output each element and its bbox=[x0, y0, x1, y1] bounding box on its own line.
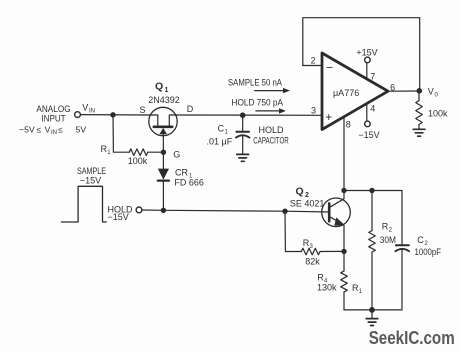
transistor Q1 gate stem bbox=[162, 134, 164, 153]
wire R2 top lead bbox=[371, 191, 373, 231]
node gate G bbox=[161, 150, 166, 155]
transistor Q2 SE4021 body bbox=[322, 198, 351, 227]
diode CR1 body bbox=[158, 169, 169, 180]
ground stem bbox=[371, 310, 373, 318]
capacitor C2 plates bbox=[396, 244, 409, 246]
input terminal VIN bbox=[75, 112, 81, 118]
diode CR1 cathode bar bbox=[158, 180, 169, 182]
current arrow hold bbox=[256, 108, 286, 113]
svg-text:SAMPLE: SAMPLE bbox=[77, 166, 106, 176]
svg-text:1: 1 bbox=[165, 87, 169, 94]
resistor R1 100k bbox=[129, 149, 148, 156]
svg-text:3: 3 bbox=[310, 244, 314, 250]
+15V terminal bbox=[365, 57, 371, 63]
svg-text:C: C bbox=[417, 235, 424, 245]
svg-text:Q: Q bbox=[155, 81, 163, 93]
sample pulse waveform bbox=[62, 186, 107, 222]
wire base node down to R3 bbox=[285, 211, 301, 251]
svg-text:2: 2 bbox=[389, 228, 393, 234]
node base junction bbox=[282, 209, 287, 214]
svg-text:30M: 30M bbox=[380, 235, 396, 245]
resistor R2 30M bbox=[369, 231, 376, 252]
svg-text:HOLD: HOLD bbox=[258, 125, 284, 135]
svg-text:−15V: −15V bbox=[108, 212, 129, 222]
svg-text:S: S bbox=[140, 105, 146, 115]
capacitor C2 bottom lead bbox=[401, 250, 403, 310]
svg-text:INPUT: INPUT bbox=[41, 114, 66, 124]
-15V terminal bbox=[365, 121, 371, 127]
svg-text:V: V bbox=[428, 86, 434, 96]
node emitter junction bbox=[341, 249, 346, 254]
svg-text:.01 μF: .01 μF bbox=[207, 136, 233, 146]
wire R2 bottom lead bbox=[371, 252, 373, 310]
svg-text:−15V: −15V bbox=[358, 130, 379, 140]
svg-text:1: 1 bbox=[107, 150, 111, 156]
wire emitter down bbox=[343, 225, 345, 251]
svg-text:SeekIC.com: SeekIC.com bbox=[369, 328, 455, 348]
wire R3 to emitter node bbox=[320, 250, 344, 252]
svg-text:82k: 82k bbox=[305, 256, 320, 266]
current arrow sample bbox=[255, 88, 290, 93]
resistor R3 82k bbox=[301, 248, 320, 255]
node hold-capacitor junction bbox=[240, 112, 246, 118]
svg-text:V: V bbox=[82, 103, 88, 113]
op-amp pin 6 output wire bbox=[388, 90, 420, 92]
wire emitter node to R4 bbox=[343, 251, 345, 271]
transistor Q1 drain lead bbox=[169, 115, 177, 126]
svg-text:Q: Q bbox=[296, 185, 304, 197]
svg-text:+: + bbox=[325, 110, 332, 124]
svg-text:IN: IN bbox=[51, 130, 57, 136]
wire diode to hold rail bbox=[162, 181, 164, 211]
transistor Q2 base wire bbox=[285, 210, 329, 213]
svg-text:100k: 100k bbox=[128, 156, 148, 166]
svg-text:V: V bbox=[45, 124, 51, 134]
svg-text:2: 2 bbox=[311, 56, 316, 66]
resistor RL 100k bbox=[416, 101, 423, 125]
wire R4 to bottom rail bbox=[343, 292, 345, 310]
svg-text:+15V: +15V bbox=[356, 47, 377, 57]
capacitor C1 plates bbox=[236, 131, 249, 133]
resistor R4 130k bbox=[341, 271, 348, 292]
svg-text:1000pF: 1000pF bbox=[415, 247, 442, 257]
svg-text:1: 1 bbox=[359, 289, 363, 295]
svg-text:−15V: −15V bbox=[80, 176, 101, 186]
ground bottom bbox=[366, 319, 378, 326]
svg-text:3: 3 bbox=[311, 105, 316, 115]
transistor Q1 gate arrow bbox=[159, 128, 167, 134]
capacitor C1 lower lead bbox=[242, 137, 244, 154]
wire input to JFET source bbox=[81, 114, 149, 116]
svg-text:4: 4 bbox=[370, 104, 375, 114]
bottom rail wire bbox=[344, 309, 402, 311]
svg-text:HOLD 750 pA: HOLD 750 pA bbox=[232, 98, 284, 108]
svg-text:FD 666: FD 666 bbox=[174, 178, 204, 188]
diode CR1 FD666 anode wire bbox=[162, 152, 164, 168]
svg-text:130k: 130k bbox=[317, 283, 337, 293]
op-amp pin 2 wire bbox=[303, 65, 322, 67]
svg-text:D: D bbox=[187, 104, 194, 114]
ground C1 bbox=[237, 154, 249, 161]
wire hold terminal to gate line bbox=[142, 209, 163, 211]
op-amp pin 7 stem bbox=[366, 63, 368, 79]
svg-text:−5V: −5V bbox=[19, 124, 35, 134]
svg-text:0: 0 bbox=[435, 92, 439, 98]
transistor Q2 base bar bbox=[328, 203, 331, 221]
transistor Q1 2N4392 body bbox=[149, 107, 177, 135]
transistor Q2 collector bbox=[330, 191, 344, 208]
svg-text:SAMPLE 50 nA: SAMPLE 50 nA bbox=[228, 78, 282, 88]
op-amp pin 4 stem bbox=[366, 104, 368, 121]
wire R1 to gate node bbox=[148, 151, 164, 153]
svg-text:8: 8 bbox=[346, 120, 351, 130]
node ground junction bbox=[369, 307, 375, 313]
hold terminal bbox=[136, 207, 142, 213]
svg-text:1: 1 bbox=[225, 130, 229, 136]
svg-text:CR: CR bbox=[175, 167, 188, 177]
svg-text:100k: 100k bbox=[428, 108, 448, 118]
svg-text:6: 6 bbox=[390, 83, 395, 93]
wire input node down to R1 bbox=[113, 115, 129, 152]
transistor Q2 emitter bbox=[330, 217, 343, 224]
svg-text:IN: IN bbox=[89, 109, 95, 115]
wire load resistor to ground bbox=[418, 125, 420, 129]
svg-text:μA776: μA776 bbox=[333, 88, 359, 98]
svg-text:≤: ≤ bbox=[37, 125, 42, 134]
hold capacitor C1 lead bbox=[242, 115, 244, 130]
node input/R1 junction bbox=[110, 112, 115, 117]
wire top rail to R2 and C2 bbox=[344, 190, 402, 192]
feedback wire output to pin 2 bbox=[303, 18, 420, 90]
op-amp U1 uA776 triangle bbox=[322, 53, 388, 130]
svg-text:5V: 5V bbox=[76, 124, 87, 134]
wire output node to load resistor bbox=[418, 94, 420, 101]
svg-text:CAPACITOR: CAPACITOR bbox=[253, 136, 289, 146]
transistor Q1 source lead bbox=[149, 115, 158, 126]
svg-text:−: − bbox=[326, 61, 333, 75]
wire drain to op-amp pin 3 bbox=[177, 114, 322, 116]
transistor Q1 channel bar bbox=[154, 126, 172, 129]
op-amp pin 8 wire bbox=[343, 117, 345, 190]
node output junction bbox=[417, 88, 423, 94]
svg-text:SE 4021: SE 4021 bbox=[290, 198, 325, 208]
node collector/pin8/rail bbox=[341, 188, 346, 193]
ground output bbox=[413, 129, 425, 136]
svg-text:2N4392: 2N4392 bbox=[148, 95, 180, 105]
node R2 top bbox=[369, 188, 374, 193]
node hold rail / diode bbox=[161, 208, 166, 213]
capacitor C2 top lead bbox=[401, 191, 403, 245]
wire hold rail to Q2 base node bbox=[163, 209, 285, 212]
svg-text:≤: ≤ bbox=[58, 125, 63, 134]
svg-text:7: 7 bbox=[370, 71, 375, 81]
svg-text:G: G bbox=[173, 149, 180, 159]
